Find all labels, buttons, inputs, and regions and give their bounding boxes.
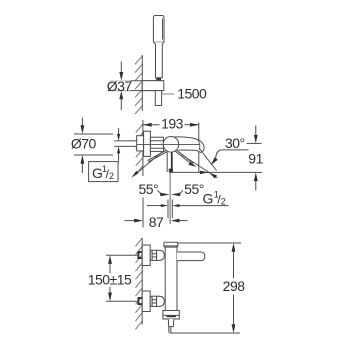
svg-text:150±15: 150±15 bbox=[88, 272, 132, 288]
svg-text:Ø37: Ø37 bbox=[107, 78, 133, 94]
svg-text:55°: 55° bbox=[184, 181, 204, 197]
svg-text:91: 91 bbox=[248, 150, 263, 166]
svg-text:2: 2 bbox=[221, 196, 226, 206]
svg-text:55°: 55° bbox=[138, 181, 158, 197]
svg-text:2: 2 bbox=[109, 171, 114, 181]
svg-text:Ø70: Ø70 bbox=[71, 136, 97, 152]
svg-text:1500: 1500 bbox=[177, 86, 207, 102]
svg-text:87: 87 bbox=[149, 214, 164, 230]
svg-text:G: G bbox=[203, 191, 214, 207]
svg-text:193: 193 bbox=[161, 115, 184, 131]
svg-text:298: 298 bbox=[223, 278, 246, 294]
svg-text:30°: 30° bbox=[225, 135, 245, 151]
